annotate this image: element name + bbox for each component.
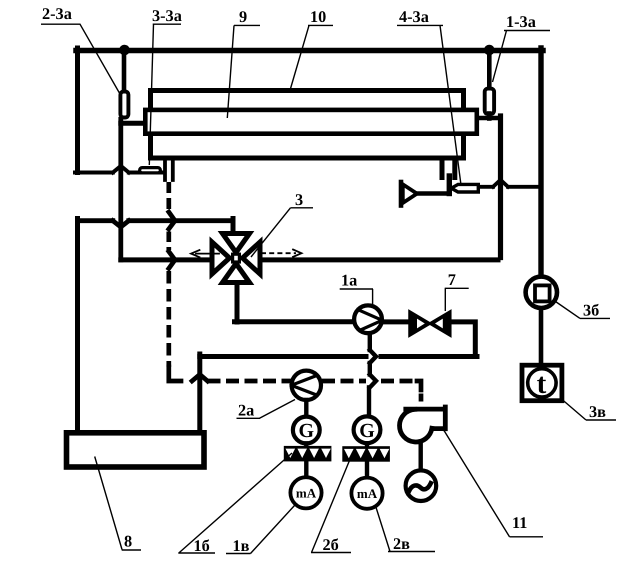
pipe3 circle1a to valve7 [384, 319, 411, 324]
svg-text:2в: 2в [393, 534, 410, 553]
pipe2 right of valve [258, 257, 498, 262]
label 1-3a leader [493, 31, 551, 83]
meter mA2 [351, 478, 382, 509]
valve 3 four-way [212, 234, 260, 283]
wire impulse line y172 with hop over node [75, 171, 164, 175]
label 2v leader [376, 507, 435, 552]
wire left drop to box8 [75, 219, 80, 433]
svg-text:3-3а: 3-3а [152, 6, 182, 25]
svg-text:2б: 2б [323, 535, 339, 554]
horn back bar [399, 182, 404, 206]
hop chevron up at (124,172.5) [113, 166, 129, 173]
pipe1 dip chevron [113, 221, 129, 227]
svg-text:1б: 1б [194, 536, 210, 555]
wire fan to sine motor [419, 442, 423, 471]
wire riser sensor to pipe2 corner [118, 119, 123, 260]
label 3b leader [556, 302, 611, 319]
svg-text:3: 3 [295, 190, 303, 209]
pipe1 with down-dip at x124 [78, 218, 234, 223]
pipe3 riser to circle 1a [235, 319, 354, 324]
motor sine circle [406, 470, 437, 501]
label 4-3a leader [397, 25, 461, 185]
indicator 3b circle [526, 277, 557, 308]
svg-text:3в: 3в [589, 402, 606, 421]
svg-text:1а: 1а [341, 271, 357, 290]
wire sensor 1-3a to jog [487, 114, 492, 119]
label 1a leader [340, 289, 373, 304]
svg-text:4-3а: 4-3а [399, 7, 429, 26]
label 3 leader [251, 208, 313, 257]
riser hatch2 to mA2 [365, 462, 369, 478]
label 9 leader [227, 25, 260, 118]
label 7 leader [445, 288, 469, 311]
pipe 9 bar [145, 110, 477, 134]
pipe2 left of valve [121, 257, 213, 262]
svg-text:G: G [299, 420, 315, 442]
wire right drop to box8 [197, 354, 202, 432]
fan 11 volute [400, 409, 432, 442]
arrow dashed right [261, 252, 296, 254]
hop chevron right at pipe1 [169, 212, 175, 229]
circle 2a pump [292, 371, 321, 400]
wire riser from dot to sensor 2-3a [122, 50, 127, 90]
riser G2 to hatch2 [365, 443, 369, 447]
riser 2a to G1 [304, 400, 308, 417]
symbol letters [299, 368, 547, 442]
svg-text:mA: mA [296, 486, 317, 501]
svg-text:2-3а: 2-3а [42, 4, 72, 23]
meter mA1 [290, 477, 321, 508]
label 3v leader [562, 399, 617, 420]
arrow solid left [196, 253, 219, 255]
meter G2 [354, 416, 381, 443]
svg-text:9: 9 [239, 7, 247, 26]
svg-text:1в: 1в [233, 536, 250, 555]
valve 7 [409, 311, 451, 337]
label 2a leader [237, 400, 296, 419]
svg-text:1-3а: 1-3а [506, 12, 536, 31]
indicator 3v square [522, 365, 562, 401]
box 8 [67, 433, 205, 467]
tank right bottom stub [442, 158, 455, 178]
pipe4 [200, 354, 477, 359]
wire right down pipe x500 [498, 116, 503, 258]
label 3-3a leader [149, 24, 181, 165]
wire left loop vertical [75, 48, 80, 173]
svg-text:10: 10 [310, 7, 326, 26]
svg-text:mA: mA [357, 486, 378, 501]
horn triangle [403, 184, 417, 203]
pipe after valve7 and corner down [450, 322, 476, 357]
svg-text:11: 11 [512, 513, 527, 532]
wire stub leg down [447, 176, 452, 194]
dashed below pipe2 to corner [166, 271, 171, 367]
label 10 leader [290, 25, 333, 91]
hatch block 2 [342, 446, 390, 462]
dashed corner to fan [417, 381, 421, 390]
wire right main vertical top [538, 48, 543, 277]
svg-text:7: 7 [448, 270, 456, 289]
label 2-3a leader [41, 24, 120, 94]
wire horn to stub [417, 191, 448, 196]
dashed corner piece [169, 367, 181, 381]
dashed impulse vertical from 3-3a [166, 182, 171, 210]
dashed horizontal to circle 2a [208, 379, 293, 384]
label 1b leader [178, 453, 292, 553]
sensor 2-3a capsule [120, 92, 128, 118]
dashed horizontal 2a to riser2 [322, 379, 366, 384]
sensor 3-3a capsule [140, 168, 161, 173]
label 8 leader [95, 457, 141, 551]
wire 4-3a line to right with hop [480, 185, 539, 189]
wire top pipe [76, 48, 543, 54]
hop chevron up at (199.8,381) [192, 374, 208, 381]
riser hatch1 to mA1 [304, 461, 308, 477]
valve top riser [231, 219, 236, 235]
svg-text:2а: 2а [238, 401, 254, 420]
hatch block 1 [284, 446, 332, 462]
wire jog bar9 right to down pipe [477, 116, 501, 121]
svg-text:8: 8 [124, 532, 132, 551]
label 11 leader [444, 431, 543, 537]
tank 10 [151, 91, 464, 159]
circle 1a pump [354, 305, 382, 333]
sensor 1-3a capsule [485, 89, 494, 114]
hop chevron right at pipe2 [169, 252, 175, 269]
svg-text:t: t [537, 368, 547, 400]
node left junction dot [119, 45, 130, 56]
riser G1 to hatch1 [304, 443, 308, 447]
label 2b leader [311, 453, 353, 553]
svg-text:G: G [359, 420, 375, 442]
sensor 4-3a pointed capsule [451, 184, 478, 192]
valve bottom riser [235, 281, 240, 322]
hop chevron up at (500.5,186.8) [493, 180, 508, 187]
tank left bottom stub [165, 158, 173, 180]
dashed between pipes [166, 232, 171, 251]
svg-text:3б: 3б [583, 301, 599, 320]
wire riser dot to sensor 1-3a [487, 50, 492, 88]
riser from 1a down with hops [368, 334, 372, 351]
dashed horizontal riser2 to corner [381, 379, 417, 384]
wire stub to bar9 left [121, 121, 144, 126]
wire right vertical 3b to 3v [539, 308, 544, 367]
node right junction dot [484, 45, 495, 56]
meter G1 [293, 417, 320, 444]
label 1v leader [226, 506, 295, 554]
